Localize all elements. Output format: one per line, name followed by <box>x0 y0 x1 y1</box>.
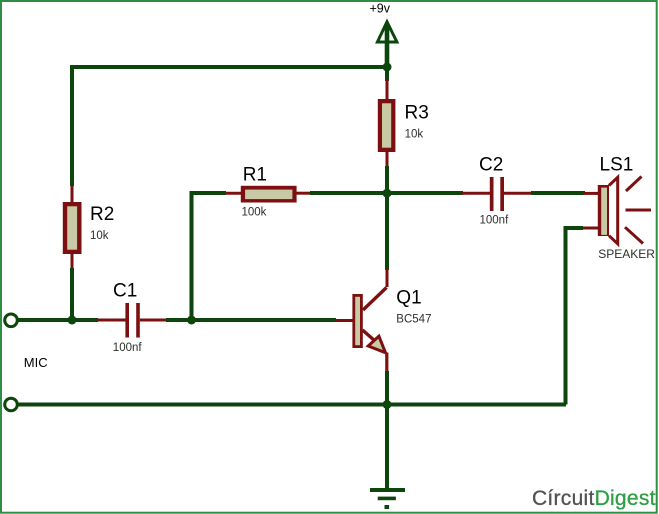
svg-text:10k: 10k <box>405 129 424 141</box>
wire left vertical from top rail to R2 <box>70 65 74 186</box>
wire C1 left lead <box>97 319 126 322</box>
node supply junction <box>383 63 392 72</box>
CircuitDigest logo <box>532 487 656 510</box>
ground <box>370 488 405 509</box>
wire collector green above transistor <box>385 193 389 270</box>
node mic-R2 junction <box>68 316 77 325</box>
wire R3 to collector node <box>385 166 389 193</box>
wire collector maroon vertical <box>386 269 389 288</box>
wire speaker top lead <box>584 192 599 195</box>
svg-text:100nf: 100nf <box>480 214 510 226</box>
svg-text:LS1: LS1 <box>600 154 634 175</box>
wire collector node to C2 <box>387 191 463 195</box>
wire base node up to R1 <box>190 193 194 320</box>
svg-text:C1: C1 <box>113 280 137 301</box>
wire bottom rail <box>19 403 567 407</box>
resistor R1 <box>241 164 297 218</box>
wire ground stem <box>385 405 389 491</box>
wire R1 right lead <box>297 192 312 195</box>
MIC terminal 1 <box>5 314 18 327</box>
svg-text:100k: 100k <box>242 206 267 218</box>
svg-text:C2: C2 <box>479 155 503 176</box>
svg-text:MIC: MIC <box>24 355 48 370</box>
svg-text:SPEAKER: SPEAKER <box>598 247 655 261</box>
wire R2 top lead <box>71 185 74 203</box>
wire speaker to right vertical <box>566 226 584 230</box>
wire terminal1 to junction <box>19 318 73 322</box>
wire R1 left lead <box>225 192 242 195</box>
wire R1 left green <box>190 191 227 195</box>
svg-text:Q1: Q1 <box>396 287 421 308</box>
node base junction <box>187 316 196 325</box>
wire R1 to collector node <box>310 191 387 195</box>
power +9v symbol <box>370 2 397 67</box>
wire speaker bottom lead <box>582 227 599 230</box>
transistor Q1 <box>352 287 431 352</box>
wire R2 to mic node <box>70 268 74 320</box>
resistor R3 <box>378 99 429 152</box>
wire supply to R3 <box>385 67 389 81</box>
wire C2 right lead <box>504 192 532 195</box>
wire C2 to speaker <box>531 191 585 195</box>
wire C1 to base node <box>166 318 192 322</box>
resistor R2 <box>63 202 114 254</box>
svg-text:CírcuitDigest: CírcuitDigest <box>532 487 656 510</box>
wire C2 left lead <box>462 192 491 195</box>
svg-text:R2: R2 <box>90 204 114 225</box>
wire R3 top lead <box>386 80 389 100</box>
node collector junction <box>383 189 392 198</box>
svg-text:BC547: BC547 <box>396 313 431 325</box>
wire junction to C1 <box>72 318 98 322</box>
capacitor C2 <box>479 155 509 227</box>
wire top rail from R2 to +9v node <box>70 65 387 69</box>
wire right vertical down to bottom rail <box>564 226 568 405</box>
wire R2 bottom lead <box>71 253 74 269</box>
MIC terminal 2 <box>5 398 18 411</box>
svg-text:R1: R1 <box>243 164 267 185</box>
svg-text:100nf: 100nf <box>113 342 143 354</box>
wire base maroon lead <box>335 319 353 322</box>
svg-text:R3: R3 <box>405 103 429 124</box>
wire emitter to bottom rail <box>385 371 389 405</box>
capacitor C1 <box>113 280 143 354</box>
speaker LS1 <box>598 154 655 261</box>
svg-text:+9v: +9v <box>370 2 391 16</box>
wire emitter maroon vertical <box>385 353 388 373</box>
wire R3 bottom lead <box>386 152 389 167</box>
svg-text:10k: 10k <box>90 230 109 242</box>
wire C1 right lead <box>140 319 167 322</box>
wire base node to transistor <box>192 318 337 322</box>
node emitter-rail junction <box>383 400 392 409</box>
